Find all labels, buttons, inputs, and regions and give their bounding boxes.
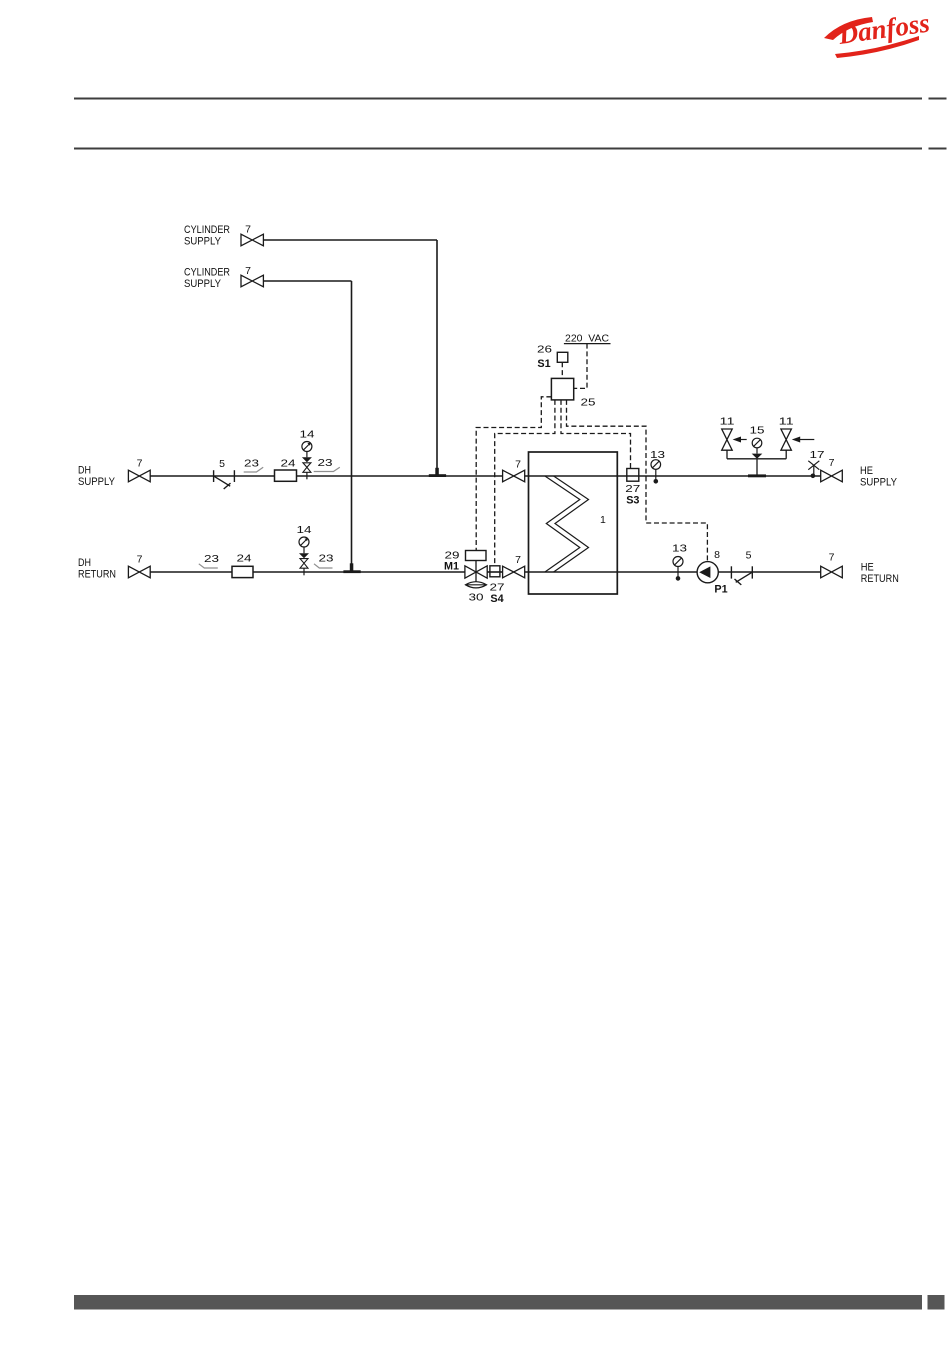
svg-text:30: 30 (469, 592, 484, 604)
svg-text:23: 23 (204, 553, 219, 565)
svg-text:25: 25 (581, 397, 596, 409)
sensor S3 27 (625, 469, 640, 507)
svg-text:7: 7 (245, 265, 251, 277)
svg-text:11: 11 (779, 416, 794, 428)
svg-text:RETURN: RETURN (861, 573, 899, 585)
dashed wire controller to pump P1 (567, 400, 708, 562)
svg-text:SUPPLY: SUPPLY (184, 236, 221, 248)
safety valve 14 DH supply (300, 429, 315, 480)
valve 7 cylinder supply 1 (241, 224, 263, 246)
test point 17 (808, 449, 824, 478)
wire DH supply main right (525, 475, 821, 477)
svg-text:8: 8 (714, 549, 720, 561)
svg-text:7: 7 (245, 224, 251, 236)
dashed wire 220VAC to controller (574, 344, 587, 389)
svg-text:17: 17 (810, 449, 825, 461)
svg-text:11: 11 (720, 416, 735, 428)
svg-text:P1: P1 (714, 584, 727, 596)
wire DH supply main left (150, 475, 502, 477)
svg-text:7: 7 (137, 458, 143, 470)
svg-text:7: 7 (829, 552, 835, 564)
label CYLINDER SUPPLY 1 (184, 224, 230, 248)
valve 7 before heat exchanger (return) (503, 554, 525, 578)
svg-text:CYLINDER: CYLINDER (184, 267, 230, 279)
safety valve 11 right (779, 416, 815, 451)
pressure gauge 15 (750, 424, 765, 459)
svg-text:23: 23 (318, 457, 333, 469)
dashed wire controller to S4 (495, 400, 555, 566)
sensor S4 27 (490, 566, 505, 605)
junction bar safety group on line (748, 474, 766, 477)
dashed wire S1 to controller (561, 362, 563, 378)
junction T on DH return (343, 563, 360, 573)
svg-text:7: 7 (515, 554, 521, 566)
svg-text:15: 15 (750, 424, 765, 436)
svg-text:SUPPLY: SUPPLY (184, 278, 221, 290)
svg-text:14: 14 (297, 524, 312, 536)
safety group header piping (727, 450, 786, 476)
svg-text:M1: M1 (444, 561, 459, 573)
svg-text:24: 24 (281, 458, 296, 470)
svg-text:24: 24 (237, 553, 252, 565)
safety valve 14 DH return (297, 524, 312, 575)
valve 7 DH supply (128, 458, 150, 482)
valve 7 cylinder supply 2 (241, 265, 263, 287)
label DH RETURN (78, 557, 116, 581)
valve 7 DH return (128, 554, 150, 578)
svg-text:RETURN: RETURN (78, 569, 116, 581)
svg-text:5: 5 (746, 550, 752, 562)
thermometer point 23 DH return b (314, 553, 334, 568)
svg-text:27: 27 (490, 582, 505, 594)
label 220 VAC (564, 332, 611, 344)
wire cylinder supply 2 horizontal (263, 280, 351, 282)
header rule bottom (74, 148, 947, 150)
heat meter 24 DH return (232, 553, 253, 578)
svg-text:220 VAC: 220 VAC (565, 332, 609, 344)
thermometer point 23 DH supply a (244, 458, 264, 473)
svg-text:7: 7 (515, 459, 521, 471)
svg-text:DH: DH (78, 465, 91, 477)
svg-text:HE: HE (860, 465, 873, 477)
valve 7 before heat exchanger (supply) (503, 459, 525, 482)
svg-text:S3: S3 (626, 495, 639, 507)
safety valve 11 left (720, 416, 747, 451)
svg-text:7: 7 (829, 457, 835, 469)
wire cylinder supply 1 vertical drop (436, 240, 438, 474)
wire cylinder supply 1 horizontal (263, 239, 437, 241)
wire DH return between M1 and valve (487, 571, 502, 573)
wire DH return main right (525, 571, 821, 573)
heat meter 24 DH supply (275, 458, 297, 482)
wire DH return main left (150, 571, 465, 573)
svg-text:26: 26 (537, 344, 552, 356)
svg-text:7: 7 (137, 554, 143, 566)
label CYLINDER SUPPLY 2 (184, 267, 230, 291)
svg-text:13: 13 (672, 543, 687, 555)
svg-text:SUPPLY: SUPPLY (78, 476, 115, 488)
svg-text:1: 1 (600, 514, 606, 526)
svg-text:HE: HE (861, 562, 874, 574)
svg-text:14: 14 (300, 429, 315, 441)
sensor S1 26 outdoor (537, 344, 568, 371)
Danfoss logo (824, 7, 931, 58)
svg-text:27: 27 (625, 483, 640, 495)
motor valve M1 29 (444, 550, 487, 583)
heat exchanger 1 body (529, 452, 618, 594)
svg-text:SUPPLY: SUPPLY (860, 477, 897, 489)
strainer 5 HE return (731, 566, 752, 585)
bypass 30 ellipse under M1 (466, 582, 487, 604)
controller box 25 (551, 378, 595, 408)
junction T on DH supply (429, 468, 446, 477)
label HE RETURN (861, 562, 899, 586)
thermometer 13 HE return (672, 543, 687, 581)
thermometer point 23 DH return a (199, 553, 219, 568)
svg-text:CYLINDER: CYLINDER (184, 224, 230, 236)
svg-text:S1: S1 (537, 358, 550, 370)
header rule top (74, 98, 947, 100)
svg-text:5: 5 (219, 458, 225, 470)
label DH SUPPLY (78, 465, 115, 489)
pump P1 8 (697, 549, 728, 596)
svg-text:23: 23 (319, 553, 334, 565)
thermometer 13 HE supply (650, 449, 665, 484)
dashed wire controller to S3 (561, 400, 631, 469)
svg-text:S4: S4 (490, 593, 503, 605)
svg-text:23: 23 (244, 458, 259, 470)
label HE SUPPLY (860, 465, 897, 489)
thermometer point 23 DH supply b (314, 457, 340, 471)
wire cylinder supply 2 vertical drop (351, 281, 353, 570)
svg-text:Danfoss: Danfoss (836, 7, 932, 50)
svg-text:DH: DH (78, 557, 91, 569)
valve 7 HE return (821, 552, 843, 578)
strainer 5 DH supply (214, 470, 235, 489)
footer bar (74, 1295, 945, 1310)
valve 7 HE supply (821, 457, 843, 482)
svg-text:13: 13 (650, 449, 665, 461)
dashed wire controller left port to M1 (476, 397, 551, 551)
